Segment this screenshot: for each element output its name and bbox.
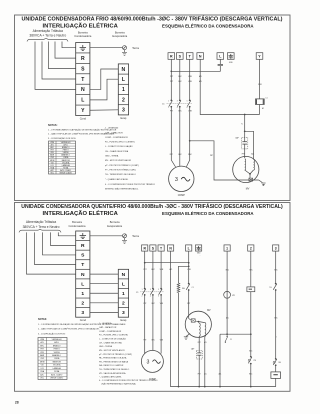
terminal R: [168, 53, 175, 60]
svg-text:380VCA + Terra e Neutro: 380VCA + Terra e Neutro: [29, 34, 66, 38]
svg-text:VRM: VRM: [40, 339, 44, 341]
svg-text:Evap: Evap: [120, 116, 126, 120]
svg-text:PB - PRESSOSTATO DE BAIXA: PB - PRESSOSTATO DE BAIXA: [99, 360, 129, 363]
svg-text:Evaporadora: Evaporadora: [107, 224, 122, 228]
supply wire 5: [35, 42, 76, 90]
svg-text:PRT: PRT: [210, 155, 213, 157]
svg-text:AZUL CLARO: AZUL CLARO: [51, 373, 63, 376]
fan winding junction: [245, 170, 250, 174]
svg-text:1: 1: [226, 246, 228, 250]
svg-text:2: 2: [142, 295, 143, 297]
svg-text:Cond: Cond: [80, 318, 87, 322]
fan protector 2: [189, 319, 192, 321]
svg-text:R: R: [81, 56, 85, 62]
svg-text:MV: MV: [246, 188, 250, 191]
svg-text:N: N: [122, 272, 126, 278]
svg-text:PA - PRESSOSTATO DE ALTA: PA - PRESSOSTATO DE ALTA: [99, 357, 127, 360]
solenoid VR: [226, 251, 228, 334]
svg-text:COMP: COMP: [178, 194, 186, 197]
wire Cond N to Evap N: [90, 69, 118, 89]
svg-text:FU - FUSÍVEL (PELO CLIENTE): FU - FUSÍVEL (PELO CLIENTE): [99, 334, 128, 337]
svg-text:3: 3: [275, 246, 277, 250]
svg-text:R: R: [170, 54, 173, 58]
fan winding A: [245, 159, 246, 170]
svg-text:L: L: [188, 246, 190, 250]
supply wire 1: [62, 42, 76, 48]
svg-text:6: 6: [187, 107, 188, 109]
wire Cond L to Evap L: [90, 79, 118, 100]
svg-text:Borneira: Borneira: [78, 31, 88, 35]
capacitor CAP 2: [198, 336, 200, 353]
terminal N 2: [168, 245, 174, 251]
wire fan main branch: [245, 131, 254, 159]
svg-text:5: 5: [187, 101, 188, 103]
svg-text:INTERLIGAÇÃO ELÉTRICA: INTERLIGAÇÃO ELÉTRICA: [43, 209, 119, 217]
svg-text:VERMELHO: VERMELHO: [52, 339, 63, 341]
svg-text:FU - FUSÍVEL (PELO CLIENTE): FU - FUSÍVEL (PELO CLIENTE): [105, 141, 135, 144]
wire phase R: [170, 59, 172, 100]
fan winding B 2: [198, 322, 205, 323]
wire R to compressor 2: [144, 295, 146, 354]
supply wire 3: [49, 42, 76, 69]
svg-text:PRT: PRT: [187, 303, 190, 305]
svg-text:TH - TERMOSTATO DE DEGELO: TH - TERMOSTATO DE DEGELO: [105, 173, 136, 176]
svg-text:L: L: [81, 281, 84, 287]
terminal T 2: [158, 245, 164, 251]
svg-text:CINZA: CINZA: [54, 357, 60, 360]
wire Cond-Evap 3: [90, 311, 118, 313]
svg-text:MV: MV: [207, 310, 211, 312]
svg-text:Borneira: Borneira: [115, 31, 125, 35]
component box on line 2: [250, 251, 252, 287]
svg-text:1 - O FORNECIMENTO DA FIAÇÃO D: 1 - O FORNECIMENTO DA FIAÇÃO DE INTERLIG…: [38, 323, 126, 326]
svg-text:CINZA: CINZA: [63, 156, 69, 159]
svg-text:GND - TERRA: GND - TERRA: [99, 345, 113, 348]
pressure switch PA: [275, 358, 277, 360]
fan winding B: [254, 160, 255, 170]
svg-text:3: 3: [122, 310, 125, 316]
wire phase T: [189, 59, 191, 100]
svg-text:PRETO: PRETO: [54, 349, 61, 351]
supply brace 2: [19, 229, 61, 232]
wire Cond GND to Terra: [90, 47, 123, 49]
svg-text:NOTAS:: NOTAS:: [48, 124, 58, 127]
svg-text:LARANJA: LARANJA: [53, 367, 62, 370]
svg-text:µP - PROTETOR TÉRMICO (COMP): µP - PROTETOR TÉRMICO (COMP): [105, 164, 139, 167]
svg-text:N: N: [81, 272, 85, 278]
svg-text:PT - PROTETOR TÉRMICO (MV): PT - PROTETOR TÉRMICO (MV): [105, 169, 136, 172]
terminal Y: [256, 53, 263, 60]
svg-text:CAP - CAPACITOR: CAP - CAPACITOR: [99, 326, 117, 329]
capacitor CAP: [242, 137, 248, 149]
panel 2 border frame: [15, 203, 291, 392]
supply wire 4: [42, 42, 76, 80]
junction T / fan feed: [189, 140, 191, 142]
supply wire 2: [55, 42, 76, 59]
wire R to compressor: [171, 107, 175, 167]
wire T to compressor: [186, 107, 189, 167]
svg-text:UNIDADE CONDENSADORA QUENTE/FR: UNIDADE CONDENSADORA QUENTE/FRIO 48/60.0…: [21, 203, 283, 210]
svg-text:MARROM: MARROM: [53, 360, 62, 363]
wire Cond-Evap L: [90, 283, 118, 285]
svg-text:1: 1: [81, 291, 84, 297]
bus junction dots: [178, 386, 180, 388]
resistor RA: [177, 283, 180, 293]
svg-text:4: 4: [150, 295, 151, 297]
svg-text:C1: C1: [265, 98, 267, 100]
svg-text:4 - O COMPRESSOR POSSUI PROTET: 4 - O COMPRESSOR POSSUI PROTETOR TÉRMICO: [105, 183, 155, 186]
supply wire 2-2: [50, 232, 75, 245]
svg-text:GND - TERRA: GND - TERRA: [105, 155, 119, 158]
svg-text:ROSA: ROSA: [54, 370, 60, 373]
terminal S 2: [150, 245, 156, 251]
wire S to compressor 2: [152, 295, 154, 351]
aux contact below node A: [226, 334, 228, 336]
supply wire 2-4: [35, 232, 76, 264]
terminal strip Cond 2: [76, 231, 90, 317]
svg-text:MV - MOTOR VENTILADOR: MV - MOTOR VENTILADOR: [105, 159, 132, 162]
svg-text:C1: C1: [230, 339, 232, 341]
svg-text:380VCA + Terra e Neutro: 380VCA + Terra e Neutro: [23, 225, 60, 229]
svg-text:N: N: [122, 67, 126, 73]
wire N branch to fan: [244, 115, 246, 132]
svg-text:MRM: MRM: [40, 361, 45, 363]
svg-text:BRANCO: BRANCO: [53, 344, 61, 347]
svg-text:1 - LEGENDA:: 1 - LEGENDA:: [105, 127, 119, 130]
svg-text:3: 3: [147, 359, 150, 365]
svg-text:1: 1: [122, 87, 125, 93]
svg-text:ESQUEMA ELÉTRICO DA CONDENSADO: ESQUEMA ELÉTRICO DA CONDENSADORA: [162, 23, 254, 28]
fan winding A 2: [197, 322, 200, 324]
terminal strip Evap: [118, 64, 128, 115]
wire neutral N: [200, 59, 259, 114]
svg-text:AZUL: AZUL: [54, 341, 59, 344]
compressor COMP 2: [141, 350, 163, 372]
svg-text:L - CONECTOR DE LIGAÇÃO: L - CONECTOR DE LIGAÇÃO: [105, 145, 133, 148]
svg-text:3: 3: [175, 177, 178, 183]
supply brace: [27, 38, 68, 41]
svg-text:3: 3: [81, 310, 84, 316]
svg-text:COMP: COMP: [149, 379, 156, 381]
wire L down: [188, 251, 190, 283]
svg-text:2: 2: [81, 301, 84, 307]
svg-text:Evaporadora: Evaporadora: [112, 34, 127, 38]
bus L to RA: [179, 266, 189, 283]
svg-text:INTERNO (NÃO REPRESENTADO).: INTERNO (NÃO REPRESENTADO).: [105, 187, 139, 190]
svg-text:PRT: PRT: [198, 374, 201, 376]
svg-text:AMARELO: AMARELO: [52, 354, 61, 357]
svg-text:INTERLIGAÇÃO ELÉTRICA: INTERLIGAÇÃO ELÉTRICA: [43, 21, 119, 29]
svg-text:* - QUANDO APLICÁVEL: * - QUANDO APLICÁVEL: [105, 178, 129, 181]
svg-text:PRT: PRT: [170, 81, 173, 83]
terminal 1: [224, 245, 230, 251]
svg-text:LRJ: LRJ: [41, 368, 44, 370]
svg-text:AZL: AZL: [41, 341, 44, 344]
svg-text:ESQUEMA ELÉTRICO DA CONDENSADO: ESQUEMA ELÉTRICO DA CONDENSADORA: [162, 211, 254, 216]
svg-text:BRC: BRC: [249, 374, 252, 376]
ground fan: [261, 183, 265, 186]
node A horizontal: [220, 333, 251, 335]
terminal 2: [248, 245, 254, 251]
svg-text:UNIDADE CONDENSADORA FRIO 48/6: UNIDADE CONDENSADORA FRIO 48/60/90.000Bt…: [22, 16, 283, 23]
svg-text:2: 2: [122, 97, 125, 103]
svg-text:2: 2: [122, 301, 125, 307]
wire T to compressor 2: [160, 295, 162, 354]
svg-text:Cond: Cond: [80, 117, 87, 121]
svg-text:3: 3: [122, 108, 125, 114]
svg-text:VIOLETA: VIOLETA: [53, 364, 61, 367]
svg-text:Terra: Terra: [132, 234, 139, 238]
terminal R 2: [142, 245, 148, 251]
wire Cond-Evap 1: [90, 292, 118, 294]
svg-text:3 - CODIFICAÇÃO DOS FIOS:: 3 - CODIFICAÇÃO DOS FIOS:: [48, 137, 77, 140]
svg-text:PRT: PRT: [143, 269, 146, 271]
junction R/L feed: [170, 70, 172, 72]
svg-text:TH - TERMOSTATO DE DEGELO: TH - TERMOSTATO DE DEGELO: [99, 368, 130, 371]
wire Cond-Evap N: [90, 273, 118, 275]
svg-text:S: S: [81, 66, 85, 72]
svg-text:3 - CODIFICAÇÃO DOS FIOS:: 3 - CODIFICAÇÃO DOS FIOS:: [38, 332, 66, 335]
terminal L 2: [186, 245, 192, 251]
wire fan branch B down: [204, 336, 206, 386]
svg-text:CAP - CAPACITOR: CAP - CAPACITOR: [105, 131, 123, 134]
svg-text:28: 28: [15, 401, 19, 405]
svg-text:2: 2: [250, 246, 252, 250]
wire Cond Y to Evap 3: [90, 109, 118, 111]
wire phase T 2: [160, 251, 162, 288]
terminal 3: [273, 245, 279, 251]
supply wire 2-3: [43, 232, 76, 255]
svg-text:NOTAS:: NOTAS:: [38, 318, 47, 321]
fan motor MV: [233, 156, 259, 182]
supply wire 2-5: [27, 232, 76, 274]
svg-text:ROSA: ROSA: [63, 166, 69, 169]
svg-text:Alimentação Trifásica: Alimentação Trifásica: [33, 29, 64, 33]
terminal T: [186, 53, 193, 60]
fan thermal protector: [249, 174, 251, 178]
svg-text:Borneira: Borneira: [110, 220, 120, 224]
svg-text:PRT: PRT: [170, 154, 173, 156]
bus R to L: [145, 262, 189, 264]
Terra screw symbol: [123, 46, 127, 50]
svg-text:T: T: [81, 262, 84, 268]
svg-text:N: N: [81, 87, 85, 93]
contact TH on line 3: [275, 251, 277, 283]
wire colour code table: [49, 141, 76, 174]
contact TH on L: [188, 283, 190, 285]
svg-text:AMR: AMR: [40, 354, 45, 357]
contactor C1 contacts: [170, 99, 172, 101]
Terra ground symbol: [124, 50, 126, 53]
svg-text:N: N: [199, 54, 202, 58]
pressure switch PB: [250, 334, 252, 356]
Terra symbol 2: [123, 234, 127, 238]
svg-text:R: R: [81, 243, 85, 249]
svg-text:PRT: PRT: [242, 154, 245, 156]
wire neutral N 2: [171, 251, 276, 387]
terminal GND: [228, 53, 235, 60]
svg-text:* - QUANDO APLICÁVEL: * - QUANDO APLICÁVEL: [99, 376, 123, 379]
wire fan ground 2: [186, 334, 190, 337]
svg-text:VR - VÁLVULA REVERSORA: VR - VÁLVULA REVERSORA: [99, 372, 126, 375]
terminal strip Cond: [76, 43, 90, 116]
svg-text:PRT: PRT: [170, 76, 173, 78]
fan motor MV 2: [185, 311, 211, 337]
panel 1 border frame: [15, 15, 291, 201]
junction fan split: [244, 130, 246, 132]
svg-text:3: 3: [150, 289, 151, 291]
terminal S: [177, 53, 184, 60]
terminal GND 2: [196, 245, 202, 251]
terminal L: [217, 53, 224, 60]
wire fan to ground: [259, 180, 263, 183]
svg-text:Terra: Terra: [132, 46, 139, 50]
terminal N: [197, 53, 204, 60]
svg-text:µP - PROTETOR TÉRMICO (COMP): µP - PROTETOR TÉRMICO (COMP): [99, 353, 132, 356]
wire Cond GND to Terra 2: [90, 235, 123, 237]
svg-text:Borneira: Borneira: [72, 220, 82, 224]
VR return wire: [219, 334, 221, 386]
wire Cond-Evap 2: [90, 302, 118, 304]
fuse on L feed: [218, 64, 223, 66]
compressor COMP: [169, 166, 194, 191]
svg-text:Evap: Evap: [120, 318, 126, 322]
wire S to compressor: [179, 107, 181, 166]
wire L feed bus: [171, 66, 220, 71]
svg-text:L: L: [122, 77, 125, 83]
wire phase S 2: [152, 251, 154, 288]
svg-text:CH - CHAVE SELETORA: CH - CHAVE SELETORA: [105, 150, 129, 153]
svg-text:VERDE CLARO: VERDE CLARO: [59, 171, 72, 174]
svg-text:1: 1: [142, 289, 143, 291]
wire phase R 2: [144, 251, 146, 288]
svg-text:2 - CABO TRIPOLAR DE 1,5MM² FL: 2 - CABO TRIPOLAR DE 1,5MM² FLEXÍVEL (PP…: [38, 328, 100, 331]
svg-text:L - CONECTOR DE LIGAÇÃO: L - CONECTOR DE LIGAÇÃO: [99, 337, 126, 340]
svg-text:L: L: [122, 281, 125, 287]
contactor coil C1 2: [275, 365, 277, 372]
supply wire 2-1: [58, 232, 75, 235]
contactor coil C1: [259, 59, 261, 99]
svg-text:Condensadora: Condensadora: [68, 224, 86, 228]
wire fan feed from T: [190, 141, 259, 180]
wire L to fan 2: [188, 290, 190, 319]
svg-text:VIOLETA: VIOLETA: [62, 161, 70, 164]
svg-text:Y: Y: [81, 108, 85, 114]
junction N bus: [244, 114, 246, 116]
svg-text:Alimentação Trifásica: Alimentação Trifásica: [26, 220, 57, 224]
svg-text:C1: C1: [192, 287, 194, 289]
svg-text:MV - MOTOR VENTILADOR: MV - MOTOR VENTILADOR: [99, 349, 125, 352]
svg-text:L: L: [81, 98, 84, 104]
contactor C1 contacts 2: [144, 288, 146, 290]
svg-text:PRT: PRT: [198, 342, 201, 344]
ground fan 2: [184, 337, 188, 340]
svg-text:COMP - COMPRESSOR: COMP - COMPRESSOR: [99, 331, 122, 333]
svg-text:(NÃO REPRESENTADO NA FIGURA).: (NÃO REPRESENTADO NA FIGURA).: [102, 382, 137, 385]
svg-text:COMP - COMPRESSOR: COMP - COMPRESSOR: [105, 137, 128, 139]
wire colour code table 2: [38, 338, 67, 380]
svg-text:RA - RESIST. DO CÁRTER: RA - RESIST. DO CÁRTER: [99, 364, 124, 367]
svg-text:VERDE: VERDE: [54, 352, 61, 354]
svg-text:Condensadora: Condensadora: [74, 34, 92, 38]
svg-text:VERDE CLARO: VERDE CLARO: [50, 377, 63, 380]
wire phase S: [179, 59, 181, 100]
terminal strip Evap 2: [118, 269, 128, 317]
svg-text:1: 1: [122, 291, 125, 297]
svg-text:1 - LEGENDA:: 1 - LEGENDA:: [99, 322, 112, 325]
svg-text:CH - CHAVE SELETORA: CH - CHAVE SELETORA: [99, 341, 122, 344]
